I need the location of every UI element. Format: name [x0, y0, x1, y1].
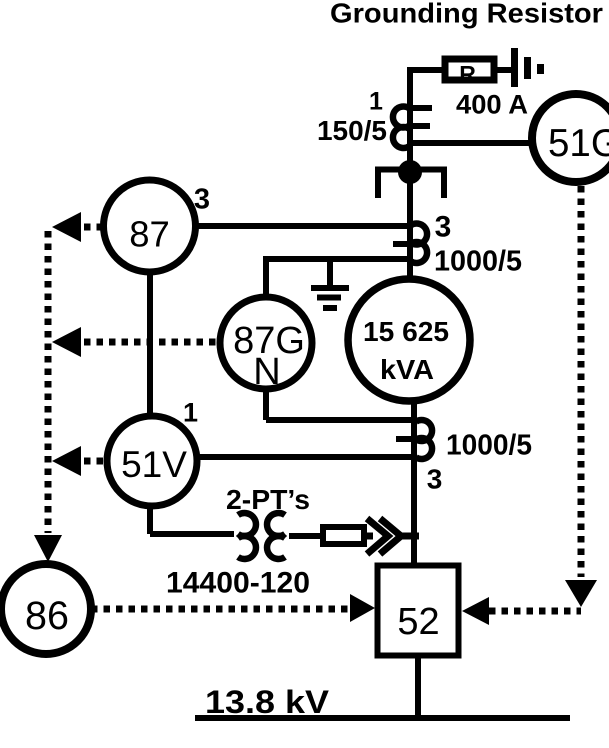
svg-text:86: 86	[25, 594, 69, 638]
svg-text:R: R	[459, 61, 476, 87]
bus 13.8 kV	[195, 715, 570, 721]
dotted line to 87G	[84, 339, 220, 346]
wire 51V down to PTs	[150, 505, 234, 534]
bracket (delta winding symbol)	[378, 170, 444, 199]
dotted trip line 86 to 52	[91, 606, 349, 613]
ground (87G neutral)	[311, 261, 349, 308]
dotted trip line 51G vertical	[578, 186, 585, 577]
relay 51V	[107, 416, 197, 506]
wire resistor left lead	[407, 67, 444, 73]
arrow down (51G trip)	[565, 580, 597, 607]
svg-text:51G: 51G	[548, 122, 609, 165]
svg-text:1: 1	[183, 398, 198, 428]
arrow at 87	[52, 212, 81, 242]
svg-text:52: 52	[397, 601, 439, 643]
svg-text:1000/5: 1000/5	[434, 246, 522, 278]
wire main vertical (top section)	[407, 67, 413, 281]
resistor R	[445, 59, 494, 87]
PT winding right	[267, 513, 285, 559]
breaker 52	[378, 566, 459, 656]
svg-text:13.8 kV: 13.8 kV	[205, 684, 330, 720]
svg-text:1000/5: 1000/5	[446, 430, 532, 462]
chevron (drawout connection)	[367, 519, 401, 555]
dotted line to 87	[84, 224, 103, 231]
svg-text:Grounding Resistor: Grounding Resistor	[330, 0, 603, 29]
svg-text:150/5: 150/5	[317, 115, 387, 146]
arrow into 52 right	[462, 597, 489, 625]
wire 87 to CT	[193, 223, 410, 229]
ground (grounding resistor)	[511, 48, 544, 87]
svg-text:3: 3	[427, 464, 443, 495]
wire 87G down to CT (bottom)	[266, 388, 414, 420]
CT 1000/5 (top)	[393, 224, 427, 263]
wire 87 to 51V	[147, 271, 153, 417]
arrow into 52 left	[350, 594, 375, 622]
dotted line into 52 right	[489, 608, 581, 615]
wire PT to fuse	[289, 533, 321, 539]
svg-text:14400-120: 14400-120	[166, 567, 310, 600]
fuse	[323, 527, 364, 544]
arrow at 51V	[52, 446, 81, 476]
svg-text:87: 87	[129, 214, 170, 255]
transformer 15625 kVA	[348, 279, 470, 401]
relay 87G N	[220, 297, 312, 393]
wire 52 to bus	[415, 658, 421, 719]
PT winding left	[238, 513, 256, 559]
node junction dot	[398, 160, 422, 184]
dotted line to 51V	[84, 458, 107, 465]
relay 86	[1, 564, 91, 654]
svg-text:kVA: kVA	[380, 354, 434, 385]
relay 87	[104, 180, 196, 272]
relay 51G	[532, 94, 609, 182]
svg-text:400 A: 400 A	[456, 90, 528, 120]
svg-text:1: 1	[369, 88, 383, 116]
dotted trip line left vertical	[45, 231, 52, 533]
svg-text:N: N	[253, 351, 280, 393]
svg-text:2-PT’s: 2-PT’s	[226, 484, 310, 515]
arrow down to 86	[34, 535, 62, 562]
arrow at 87G	[52, 327, 81, 357]
svg-text:3: 3	[435, 211, 452, 244]
wire 51V to CT (bottom)	[196, 454, 414, 460]
svg-text:51V: 51V	[121, 444, 187, 485]
CT 1000/5 (bottom)	[396, 420, 432, 459]
wire fuse to chevron	[364, 533, 419, 540]
svg-text:15 625: 15 625	[363, 316, 449, 347]
wire resistor right lead	[494, 67, 514, 73]
CT 150/5	[393, 106, 432, 147]
wire main vertical (below transformer)	[411, 400, 417, 565]
wire CT to 87G	[266, 256, 410, 299]
wire CT to 51G	[410, 140, 534, 146]
